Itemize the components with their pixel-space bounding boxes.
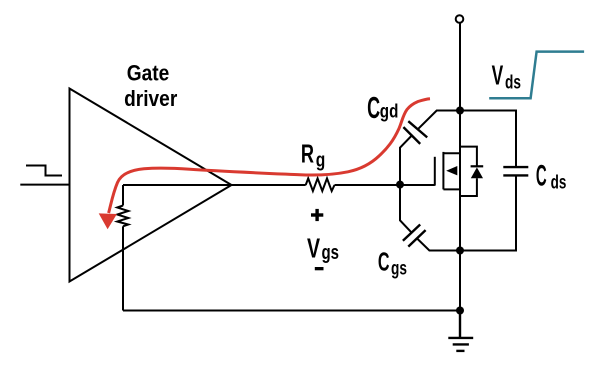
svg-text:C: C	[367, 91, 380, 125]
capacitor Cds plate 2	[503, 174, 528, 176]
svg-text:gs: gs	[322, 241, 340, 264]
op-amp U1 gate driver triangle	[70, 89, 232, 282]
capacitor Cds: bottom connection	[460, 177, 516, 251]
transistor Q1: gate bar	[434, 157, 436, 186]
wire: driver internal output line + output to Rg	[123, 184, 306, 186]
wire: internal resistor to bottom rail	[122, 226, 124, 310]
svg-text:C: C	[536, 160, 547, 193]
svg-text:ds: ds	[551, 172, 567, 193]
waveform: Vds rising edge (teal)	[489, 52, 584, 99]
node: source node junction dot	[456, 247, 464, 255]
wire: Rg to gate node to MOSFET gate	[335, 184, 435, 186]
wire: bottom return rail	[123, 310, 460, 312]
wire: main drain-source vertical line	[459, 23, 461, 311]
label - (Vgs minus)	[315, 267, 324, 270]
capacitor Cgs plate 1	[403, 225, 420, 241]
node: drain node junction dot	[456, 107, 464, 115]
capacitor Cgd plate 1	[408, 121, 427, 137]
svg-text:g: g	[316, 149, 326, 171]
diode: bottom return to source	[460, 178, 477, 196]
diode: anode triangle	[471, 167, 483, 178]
svg-text:driver: driver	[124, 87, 177, 112]
capacitor Cgd: bottom connection to gate node	[400, 136, 412, 185]
capacitor Cds: top connection	[460, 111, 516, 167]
arrow: red Miller current arrowhead	[99, 213, 117, 229]
resistor: driver internal sink resistor	[117, 206, 128, 227]
svg-text:ds: ds	[505, 71, 521, 93]
capacitor Cds plate 1	[503, 166, 528, 168]
capacitor Cgs: bottom connection to source node	[417, 238, 460, 250]
capacitor Cgd: top connection from drain node	[418, 111, 460, 130]
svg-text:C: C	[378, 246, 390, 276]
wire: red Miller current path curve	[109, 99, 430, 213]
svg-text:R: R	[301, 139, 314, 168]
svg-text:V: V	[492, 59, 504, 90]
input step waveform symbol	[26, 166, 62, 176]
transistor Q1: drain stub	[443, 152, 460, 154]
svg-text:Gate: Gate	[127, 61, 170, 86]
capacitor Cgs: top connection from gate node	[400, 185, 412, 233]
transistor Q1: source stub	[443, 188, 460, 190]
transistor Q1: body arrow	[446, 166, 457, 175]
node: ground rail junction dot	[456, 307, 464, 315]
diode: body diode branch top	[460, 147, 477, 167]
label + (Vgs plus)	[311, 209, 323, 221]
ground	[448, 311, 473, 351]
terminal: drain supply open circle	[456, 15, 464, 23]
transistor Q1: channel bar	[442, 152, 444, 190]
capacitor Cgd plate 2	[403, 127, 420, 144]
svg-text:gs: gs	[391, 257, 407, 279]
resistor Rg	[306, 178, 335, 191]
diode: cathode bar	[471, 165, 484, 167]
wire: input lead to driver	[20, 184, 69, 186]
label: Gate driver	[124, 61, 177, 111]
capacitor Cgs plate 2	[408, 230, 425, 247]
svg-text:gd: gd	[380, 100, 399, 122]
svg-text:V: V	[307, 233, 320, 264]
node: gate node junction dot	[396, 181, 404, 189]
wire: internal pull-down drop	[122, 185, 124, 206]
